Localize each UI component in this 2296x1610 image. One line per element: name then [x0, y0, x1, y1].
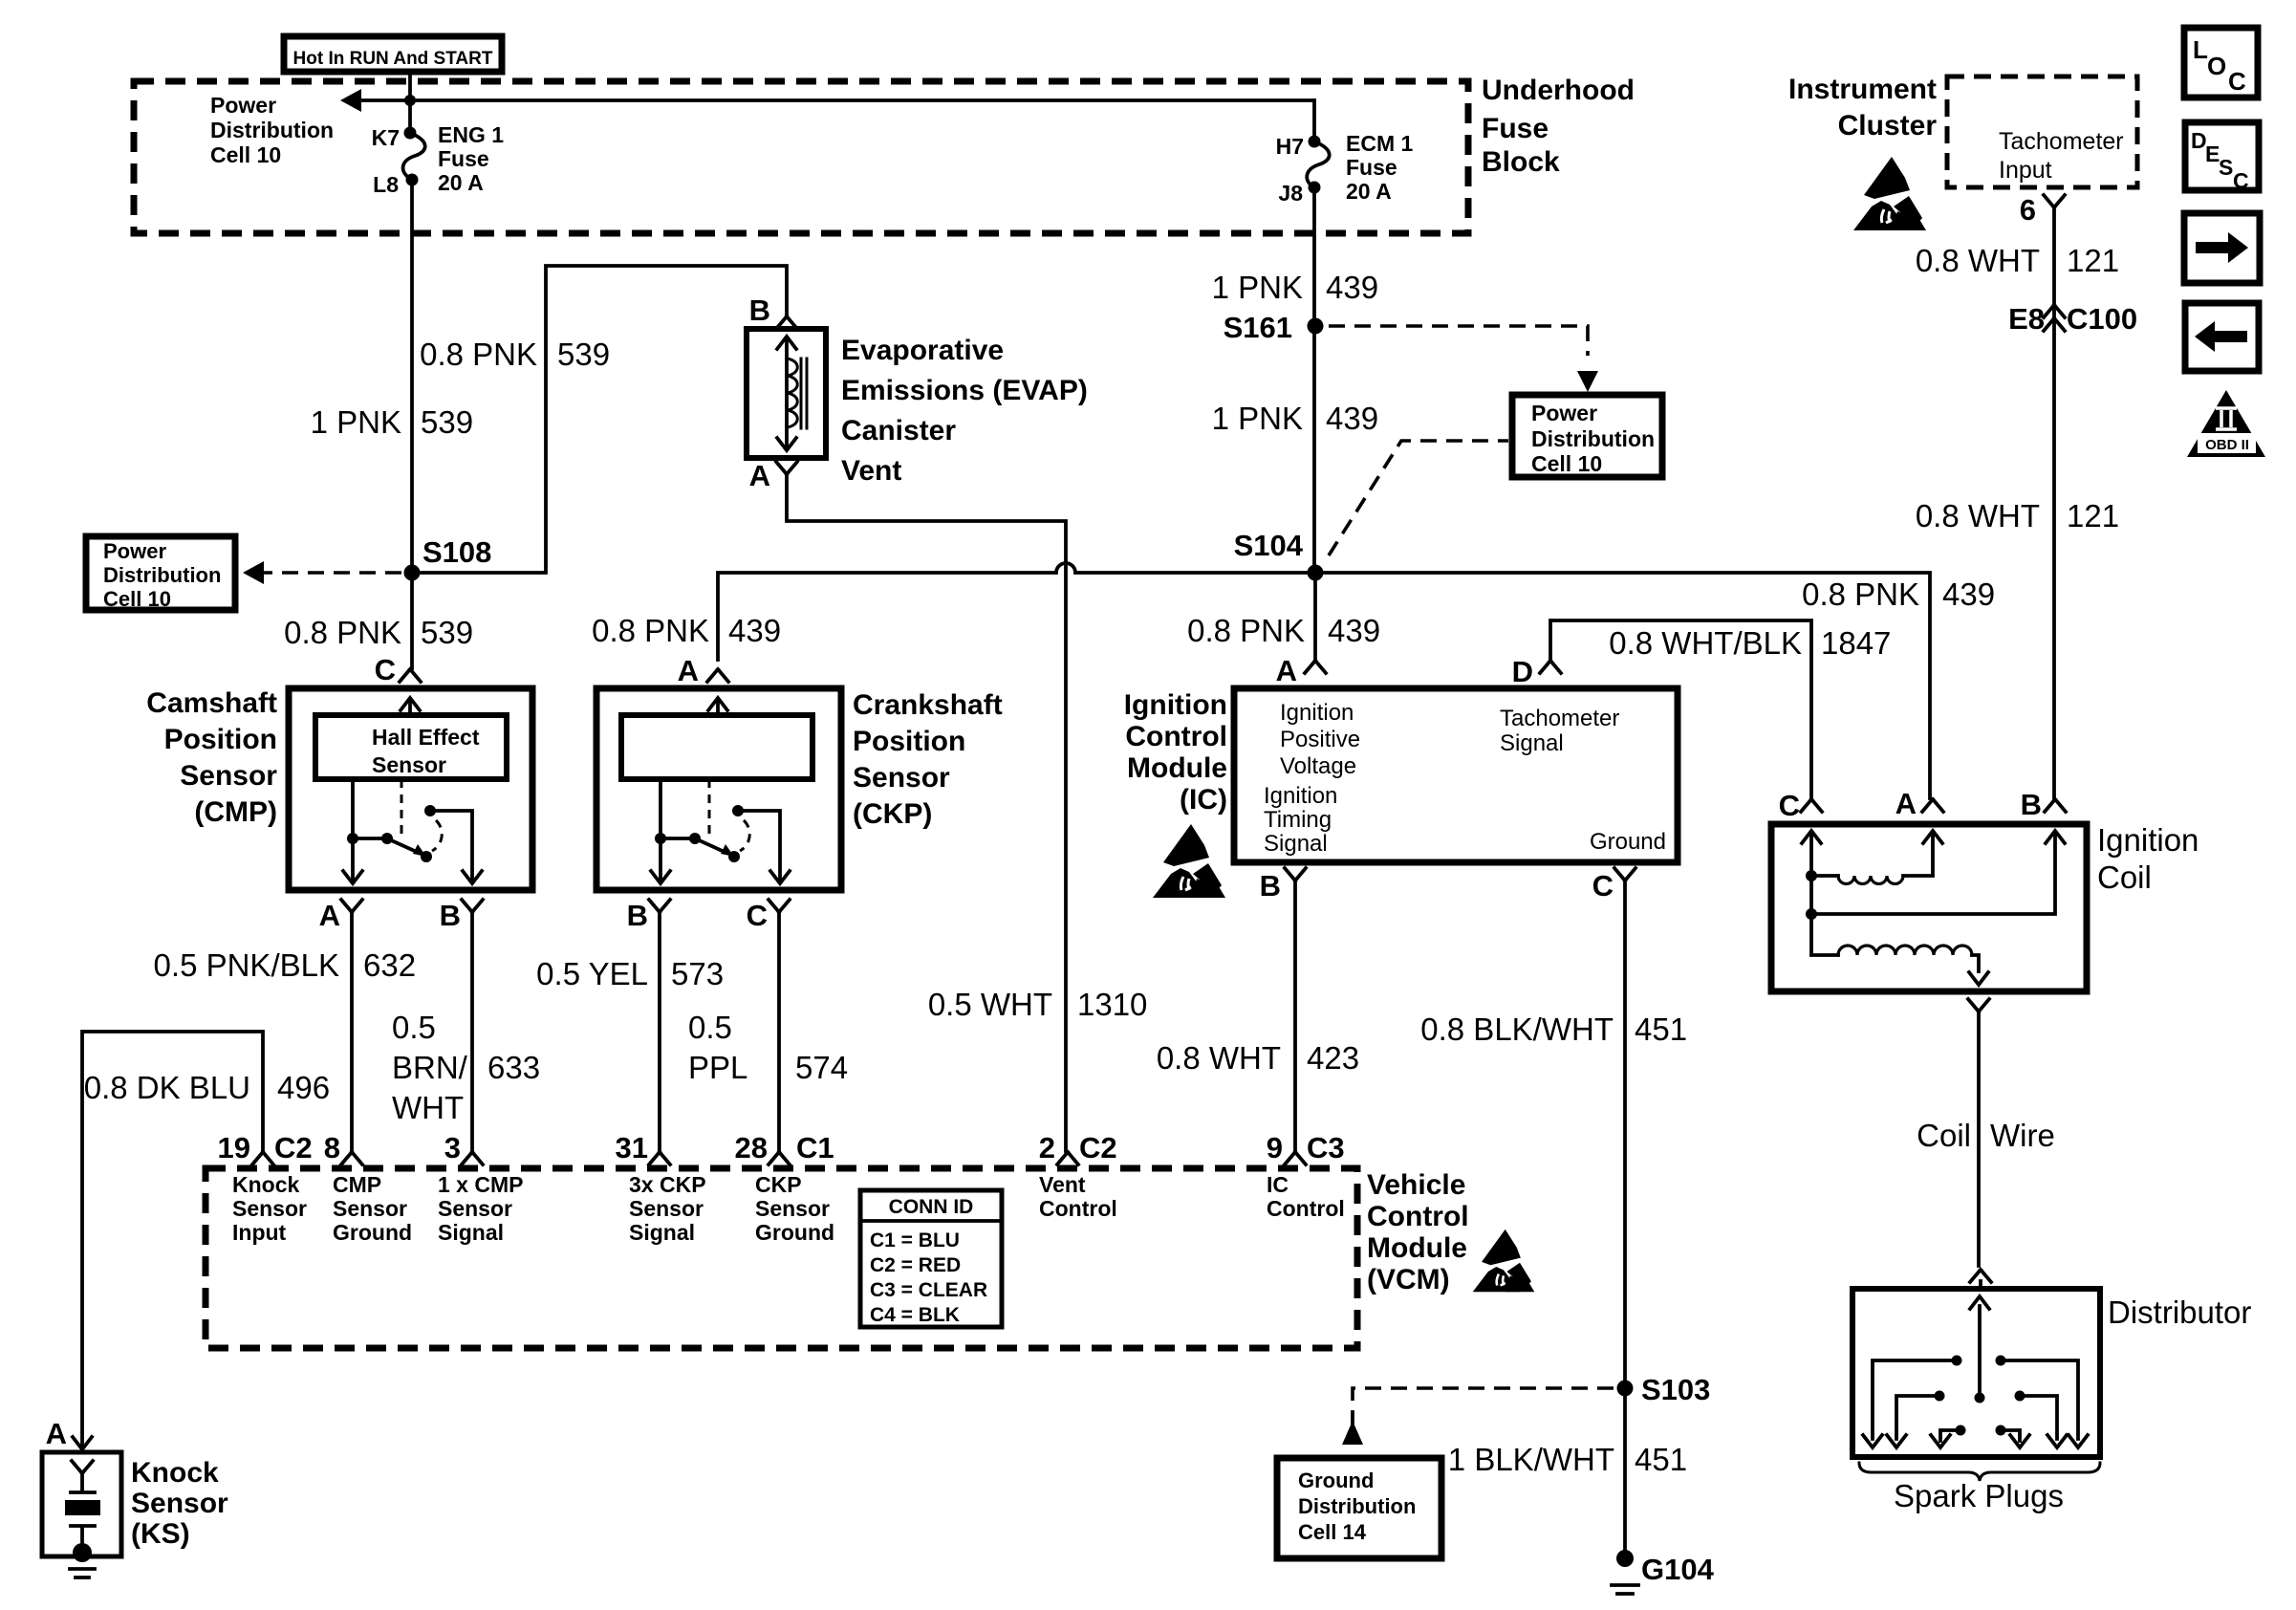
- svg-text:3: 3: [444, 1131, 461, 1164]
- wire: 1 PNK 539 (L8 to S108): [410, 180, 414, 573]
- svg-text:Canister: Canister: [841, 415, 956, 446]
- knock sensor element (capacitor symbol): [65, 1461, 100, 1562]
- svg-text:0.8 BLK/WHT: 0.8 BLK/WHT: [1420, 1012, 1614, 1047]
- svg-text:S: S: [2219, 155, 2233, 180]
- svg-text:20 A: 20 A: [438, 170, 484, 195]
- svg-text:0.8 WHT: 0.8 WHT: [1157, 1040, 1281, 1076]
- wire 0.8 WHT 121 (tach to coil B): [2052, 208, 2056, 798]
- svg-text:Spark Plugs: Spark Plugs: [1894, 1478, 2064, 1513]
- svg-text:Power: Power: [210, 93, 276, 118]
- svg-text:Tachometer: Tachometer: [1500, 706, 1619, 731]
- svg-text:A: A: [1276, 654, 1297, 687]
- coil internals: [1802, 831, 2065, 985]
- svg-text:Control: Control: [1267, 1196, 1345, 1221]
- arrow up inside CKP: [716, 702, 720, 715]
- text: Camshaft Position Sensor (CMP): [146, 687, 277, 828]
- svg-text:A: A: [319, 899, 340, 932]
- ESD symbol VCM: [1473, 1229, 1535, 1292]
- svg-text:Signal: Signal: [438, 1220, 504, 1245]
- svg-text:Cell 10: Cell 10: [103, 587, 171, 611]
- DESC box: [2185, 122, 2259, 193]
- svg-text:C: C: [2233, 168, 2249, 193]
- svg-text:6: 6: [2020, 193, 2036, 227]
- svg-text:Sensor: Sensor: [755, 1196, 830, 1221]
- svg-text:Ground: Ground: [333, 1220, 412, 1245]
- svg-text:0.8 PNK: 0.8 PNK: [1187, 613, 1305, 648]
- ESD symbol IC: [1153, 824, 1225, 898]
- knock sensor box: [42, 1452, 121, 1556]
- svg-text:Wire: Wire: [1990, 1118, 2055, 1153]
- Hall Effect Sensor box: [315, 715, 507, 779]
- svg-text:9: 9: [1267, 1131, 1283, 1164]
- svg-text:Distribution: Distribution: [1298, 1494, 1416, 1518]
- OBD II symbol: [2187, 390, 2265, 457]
- svg-text:0.8 DK BLU: 0.8 DK BLU: [84, 1070, 250, 1105]
- svg-text:Module: Module: [1367, 1232, 1467, 1264]
- svg-text:Control: Control: [1367, 1201, 1469, 1232]
- svg-text:Knock: Knock: [232, 1172, 300, 1197]
- svg-text:(CKP): (CKP): [853, 798, 932, 830]
- svg-text:S103: S103: [1641, 1373, 1710, 1406]
- svg-text:451: 451: [1635, 1442, 1687, 1477]
- CMP box: [289, 688, 532, 890]
- svg-text:C1 = BLU: C1 = BLU: [870, 1229, 960, 1251]
- svg-text:1 x CMP: 1 x CMP: [438, 1172, 523, 1197]
- svg-text:Sensor: Sensor: [438, 1196, 512, 1221]
- svg-text:C: C: [747, 899, 768, 932]
- CKP box: [596, 688, 841, 890]
- svg-text:O: O: [2207, 52, 2226, 80]
- text: Power Distribution Cell 10 (inside fuse block): [210, 93, 334, 167]
- svg-text:D: D: [1512, 655, 1533, 688]
- svg-text:S161: S161: [1224, 311, 1292, 344]
- svg-text:28: 28: [735, 1131, 768, 1164]
- svg-text:B: B: [627, 899, 648, 932]
- box: Power Distribution Cell 10 (right): [1512, 395, 1662, 477]
- svg-text:439: 439: [1942, 577, 1995, 612]
- text: Instrument Cluster: [1788, 74, 1937, 141]
- svg-text:(KS): (KS): [131, 1518, 190, 1550]
- svg-text:IC: IC: [1267, 1172, 1289, 1197]
- svg-text:0.8 WHT: 0.8 WHT: [1916, 243, 2040, 278]
- text: Ignition Control Module (IC): [1124, 689, 1227, 816]
- VCM pins row: [218, 1131, 1345, 1164]
- svg-text:Ignition: Ignition: [1264, 783, 1337, 809]
- svg-text:Position: Position: [164, 724, 277, 755]
- left arrow box: [2185, 303, 2259, 371]
- svg-text:451: 451: [1635, 1012, 1687, 1047]
- svg-text:0.5: 0.5: [392, 1010, 436, 1045]
- svg-text:Distribution: Distribution: [103, 563, 221, 587]
- svg-text:E8: E8: [2008, 302, 2045, 336]
- IC module box: [1234, 688, 1678, 862]
- svg-text:Fuse: Fuse: [438, 146, 489, 171]
- right arrow box: [2184, 213, 2260, 283]
- svg-text:OBD II: OBD II: [2205, 437, 2249, 453]
- svg-text:19: 19: [218, 1131, 250, 1164]
- svg-text:A: A: [46, 1417, 67, 1450]
- svg-text:Camshaft: Camshaft: [146, 687, 277, 719]
- svg-text:0.8 PNK: 0.8 PNK: [420, 337, 537, 372]
- svg-text:CONN ID: CONN ID: [889, 1196, 974, 1218]
- svg-text:Hot In RUN And START: Hot In RUN And START: [293, 49, 493, 69]
- svg-text:Distribution: Distribution: [1531, 426, 1655, 451]
- box: Power Distribution Cell 10 (left): [86, 536, 235, 611]
- svg-text:Ground: Ground: [755, 1220, 834, 1245]
- svg-text:B: B: [440, 899, 461, 932]
- long feed wire from CKP A across to ignition coil A (hop over vent wire): [718, 563, 1930, 798]
- dashed arrow: S108 to Power Distribution Cell 10: [256, 571, 401, 575]
- junction at top arrow: [404, 95, 416, 106]
- svg-text:Control: Control: [1039, 1196, 1117, 1221]
- svg-text:1847: 1847: [1821, 625, 1891, 661]
- svg-text:632: 632: [363, 947, 416, 983]
- spark plugs brace: [1859, 1463, 2100, 1481]
- svg-text:C3: C3: [1307, 1131, 1345, 1164]
- text: Crankshaft Position Sensor (CKP): [853, 689, 1003, 830]
- svg-text:C: C: [1779, 789, 1800, 822]
- svg-text:A: A: [749, 459, 770, 492]
- svg-text:Vent: Vent: [841, 455, 901, 487]
- svg-text:Ground: Ground: [1298, 1469, 1374, 1492]
- svg-text:C2: C2: [1079, 1131, 1117, 1164]
- svg-text:Coil: Coil: [2097, 859, 2152, 895]
- svg-text:0.5 WHT: 0.5 WHT: [928, 987, 1052, 1022]
- svg-text:L: L: [2193, 35, 2208, 64]
- svg-text:B: B: [1260, 869, 1281, 903]
- wire: 0.8 PNK 539 (S108 branch to EVAP B): [412, 266, 787, 573]
- svg-text:PPL: PPL: [688, 1050, 747, 1085]
- svg-text:Coil: Coil: [1917, 1118, 1971, 1153]
- connector at distributor: [1970, 1270, 1991, 1282]
- svg-text:CMP: CMP: [333, 1172, 381, 1197]
- svg-text:Ground: Ground: [1590, 829, 1666, 855]
- svg-text:Sensor: Sensor: [180, 760, 277, 792]
- svg-text:Signal: Signal: [1264, 831, 1328, 857]
- text: Knock Sensor (KS): [131, 1457, 228, 1550]
- svg-text:Timing: Timing: [1264, 807, 1332, 833]
- CKP inner box: [621, 715, 812, 779]
- dashed ref: S103 to Ground Distribution Cell 14: [1353, 1388, 1614, 1401]
- EVAP canister vent box: [747, 329, 826, 458]
- node S108: [404, 565, 421, 581]
- svg-text:439: 439: [1326, 401, 1378, 436]
- svg-text:Ignition: Ignition: [1124, 689, 1227, 721]
- svg-text:Distribution: Distribution: [210, 118, 334, 142]
- svg-text:Fuse: Fuse: [1346, 155, 1397, 180]
- dashed box: Underhood Fuse Block: [134, 81, 1468, 233]
- svg-text:J8: J8: [1278, 181, 1303, 206]
- svg-text:Hall Effect: Hall Effect: [372, 725, 480, 750]
- text: Underhood Fuse Block: [1482, 75, 1635, 178]
- svg-text:Underhood: Underhood: [1482, 75, 1635, 106]
- VCM pin function labels: [232, 1172, 1345, 1245]
- svg-text:CKP: CKP: [755, 1172, 802, 1197]
- LOC box: [2184, 28, 2258, 98]
- svg-text:121: 121: [2067, 243, 2119, 278]
- svg-text:B: B: [749, 294, 770, 327]
- wire label: 0.8 PNK 539 (S108 down to CMP C): [410, 573, 414, 668]
- dashed box: Tachometer Input: [1947, 76, 2137, 187]
- svg-text:439: 439: [728, 613, 781, 648]
- svg-text:C100: C100: [2067, 302, 2137, 336]
- svg-text:Position: Position: [853, 726, 965, 757]
- svg-text:539: 539: [557, 337, 610, 372]
- wire 0.5 YEL 573: [658, 913, 661, 1151]
- svg-text:A: A: [678, 654, 699, 687]
- EVAP solenoid symbol: [777, 337, 807, 450]
- box: Ground Distribution Cell 14: [1277, 1458, 1441, 1558]
- svg-text:C: C: [375, 653, 396, 686]
- svg-text:Block: Block: [1482, 146, 1560, 178]
- svg-text:Sensor: Sensor: [853, 762, 950, 794]
- svg-text:Vehicle: Vehicle: [1367, 1169, 1465, 1201]
- wire 0.5 PNK/BLK 632: [350, 913, 354, 1151]
- svg-text:B: B: [2021, 788, 2042, 821]
- text: Evaporative Emissions (EVAP) Canister Vent: [841, 335, 1088, 487]
- svg-text:(IC): (IC): [1180, 784, 1227, 816]
- wire/arrow: feed to Power Distribution (left arrow): [356, 98, 1314, 102]
- connector E8 C100: [2008, 302, 2137, 336]
- svg-text:1 PNK: 1 PNK: [311, 404, 401, 440]
- dashed diagonal: S104 to Power Distribution ref: [1329, 441, 1508, 555]
- wire 0.8 WHT/BLK 1847 (IC D to coil C): [1550, 620, 1811, 798]
- svg-text:0.5 PNK/BLK: 0.5 PNK/BLK: [154, 947, 339, 983]
- svg-text:Power: Power: [1531, 401, 1597, 425]
- fuse ECM 1 (H7/J8): [1276, 131, 1414, 206]
- CMP switch: [343, 779, 482, 883]
- svg-text:121: 121: [2067, 498, 2119, 533]
- svg-text:C1: C1: [796, 1131, 834, 1164]
- svg-text:8: 8: [324, 1131, 340, 1164]
- ignition coil box: [1771, 824, 2087, 991]
- svg-text:439: 439: [1328, 613, 1380, 648]
- svg-text:Cell 14: Cell 14: [1298, 1520, 1367, 1544]
- svg-text:539: 539: [421, 615, 473, 650]
- svg-text:574: 574: [795, 1050, 848, 1085]
- svg-text:0.8 PNK: 0.8 PNK: [1802, 577, 1919, 612]
- knock sensor ground: [70, 1569, 95, 1577]
- svg-text:Emissions (EVAP): Emissions (EVAP): [841, 375, 1088, 406]
- text: Vehicle Control Module (VCM): [1367, 1169, 1469, 1295]
- svg-text:1 BLK/WHT: 1 BLK/WHT: [1448, 1442, 1614, 1477]
- svg-text:Signal: Signal: [1500, 730, 1564, 756]
- svg-text:Knock: Knock: [131, 1457, 219, 1489]
- svg-text:Distributor: Distributor: [2108, 1295, 2251, 1330]
- svg-text:0.8 PNK: 0.8 PNK: [592, 613, 709, 648]
- ground G104: [1616, 1550, 1634, 1567]
- svg-text:ENG 1: ENG 1: [438, 122, 504, 147]
- node S104: [1308, 565, 1324, 581]
- wire: vent control 0.5 WHT 1310: [787, 475, 1066, 1151]
- fuse ENG 1 (K7/L8): [372, 122, 505, 197]
- svg-text:0.5: 0.5: [688, 1010, 732, 1045]
- node S161: [1308, 318, 1324, 335]
- svg-text:(CMP): (CMP): [194, 796, 277, 828]
- CKP switch: [651, 779, 790, 883]
- svg-text:Instrument: Instrument: [1788, 74, 1937, 105]
- svg-text:1 PNK: 1 PNK: [1212, 270, 1303, 305]
- svg-text:Positive: Positive: [1280, 727, 1360, 752]
- wire 0.5 PPL 574: [777, 913, 781, 1151]
- svg-text:Ignition: Ignition: [1280, 700, 1354, 726]
- dashed arrow: S161 to Power Distribution Cell 10 (right): [1329, 326, 1588, 356]
- svg-text:0.8 WHT: 0.8 WHT: [1916, 498, 2040, 533]
- svg-text:Input: Input: [1999, 157, 2052, 184]
- svg-text:K7: K7: [372, 125, 400, 150]
- node S103: [1617, 1381, 1634, 1397]
- svg-text:C: C: [1592, 869, 1614, 903]
- svg-text:3x CKP: 3x CKP: [629, 1172, 706, 1197]
- svg-text:(VCM): (VCM): [1367, 1264, 1450, 1295]
- svg-text:H7: H7: [1276, 134, 1304, 159]
- svg-text:0.8 WHT/BLK: 0.8 WHT/BLK: [1609, 625, 1802, 661]
- svg-text:C2: C2: [274, 1131, 313, 1164]
- svg-text:BRN/: BRN/: [392, 1050, 468, 1085]
- svg-text:Signal: Signal: [629, 1220, 695, 1245]
- svg-text:1 PNK: 1 PNK: [1212, 401, 1303, 436]
- svg-text:Crankshaft: Crankshaft: [853, 689, 1003, 721]
- svg-text:S108: S108: [422, 535, 491, 569]
- svg-text:Vent: Vent: [1039, 1172, 1086, 1197]
- svg-text:423: 423: [1307, 1040, 1359, 1076]
- wire 0.5 BRN/WHT 633: [470, 913, 474, 1151]
- svg-text:Cell 10: Cell 10: [210, 142, 281, 167]
- svg-text:Sensor: Sensor: [629, 1196, 704, 1221]
- svg-text:539: 539: [421, 404, 473, 440]
- wire: 1 PNK 439 (J8 to S104): [1312, 187, 1316, 573]
- svg-text:2: 2: [1039, 1131, 1055, 1164]
- svg-text:20 A: 20 A: [1346, 179, 1392, 204]
- wire: feed from label box down to fuse K7: [408, 73, 412, 130]
- svg-text:0.8 PNK: 0.8 PNK: [284, 615, 401, 650]
- svg-text:1310: 1310: [1077, 987, 1147, 1022]
- coil secondary output: [1968, 999, 1989, 1012]
- svg-text:Cell 10: Cell 10: [1531, 451, 1602, 476]
- svg-text:WHT: WHT: [392, 1090, 464, 1125]
- svg-text:Sensor: Sensor: [333, 1196, 407, 1221]
- svg-text:Tachometer: Tachometer: [1999, 128, 2124, 155]
- svg-text:Module: Module: [1127, 752, 1227, 784]
- svg-text:ECM 1: ECM 1: [1346, 131, 1414, 156]
- arrow up inside CMP: [408, 702, 412, 715]
- VCM dashed box: [206, 1168, 1357, 1348]
- svg-text:573: 573: [671, 956, 724, 991]
- svg-text:Sensor: Sensor: [131, 1488, 228, 1519]
- svg-text:Sensor: Sensor: [232, 1196, 307, 1221]
- svg-text:G104: G104: [1641, 1553, 1715, 1586]
- IC inner labels: [1264, 700, 1666, 857]
- svg-text:C3 = CLEAR: C3 = CLEAR: [870, 1279, 987, 1301]
- svg-text:31: 31: [616, 1131, 648, 1164]
- label box: Hot In RUN And START: [284, 36, 502, 72]
- ESD symbol instrument cluster: [1853, 157, 1926, 230]
- svg-text:Power: Power: [103, 539, 166, 563]
- svg-text:S104: S104: [1234, 529, 1304, 562]
- svg-text:C2 = RED: C2 = RED: [870, 1254, 961, 1276]
- svg-text:633: 633: [487, 1050, 540, 1085]
- svg-text:Input: Input: [232, 1220, 287, 1245]
- svg-text:A: A: [1895, 787, 1917, 820]
- wire 0.8 BLK/WHT 451 (IC C to G104): [1623, 881, 1627, 1558]
- svg-text:Sensor: Sensor: [372, 752, 446, 777]
- svg-text:C: C: [2228, 67, 2246, 96]
- svg-text:C4 = BLK: C4 = BLK: [870, 1304, 960, 1326]
- svg-text:Control: Control: [1125, 721, 1227, 752]
- svg-text:Ignition: Ignition: [2097, 822, 2199, 858]
- wire 0.8 DK BLU 496: [82, 1032, 263, 1447]
- wire 0.8 WHT 423 (IC B to VCM 9): [1293, 881, 1297, 1151]
- svg-text:Cluster: Cluster: [1838, 110, 1938, 141]
- svg-text:Fuse: Fuse: [1482, 113, 1549, 144]
- svg-text:496: 496: [277, 1070, 330, 1105]
- text: Ignition Coil: [2097, 822, 2199, 895]
- svg-text:L8: L8: [373, 172, 399, 197]
- svg-text:0.5 YEL: 0.5 YEL: [536, 956, 648, 991]
- svg-text:Evaporative: Evaporative: [841, 335, 1004, 366]
- wire IC A from S104: [1313, 573, 1317, 660]
- wire: H7 drop from feed line: [1312, 100, 1316, 139]
- svg-text:439: 439: [1326, 270, 1378, 305]
- CONN ID table: [860, 1190, 1002, 1327]
- svg-text:Voltage: Voltage: [1280, 753, 1356, 779]
